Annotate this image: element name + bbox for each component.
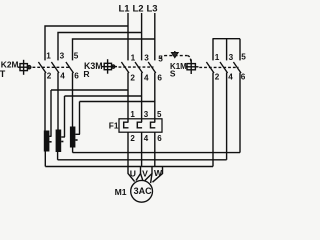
svg-text:R: R [83, 69, 90, 79]
wire loop A hook into bar 1 [49, 135, 51, 137]
wire tap L3 to K2M pole 3 [73, 39, 155, 60]
contactor K1M actuator symbol [171, 53, 178, 58]
wire K3M pole 1 to F1 input [127, 73, 129, 122]
wire K1M pole 1 bottom down [212, 73, 214, 167]
wire delta link 3 (bar3 to K1M pole3) [73, 152, 240, 154]
wire bar 1 down [44, 152, 46, 167]
wire L3 vertical down to K3M pole 3 [154, 13, 156, 60]
svg-text:S: S [170, 69, 176, 79]
svg-text:L1: L1 [119, 4, 131, 15]
junction bar 3 [70, 127, 76, 148]
wire K1M top bus [213, 38, 241, 40]
wire K1M pole 2 bottom down [226, 73, 228, 160]
svg-text:6: 6 [157, 134, 162, 143]
contactor K3M contact pole 3 blade [148, 62, 156, 73]
svg-text:1: 1 [46, 52, 51, 61]
contactor K2M linkage dashes [33, 66, 71, 68]
svg-text:5: 5 [74, 52, 79, 61]
svg-text:T: T [0, 69, 6, 79]
contactor K3M contact pole 2 blade [135, 62, 143, 73]
wire loop A vertical to bar 1 [50, 90, 52, 136]
wire K3M pole 3 to F1 input [154, 73, 156, 122]
wire tap L2 to K2M pole 2 [58, 33, 142, 61]
svg-text:1: 1 [131, 54, 136, 63]
motor terminal W cell [151, 174, 152, 184]
contactor K1M actuator drop [188, 56, 191, 62]
svg-text:L3: L3 [147, 4, 158, 15]
F1 heater element 3 [151, 122, 156, 128]
wire delta link 2 (bar2 to K1M pole2) [58, 159, 227, 161]
contactor K1M contact pole 3 blade [233, 62, 241, 73]
svg-text:4: 4 [60, 72, 65, 81]
contactor K3M linkage dashes [119, 66, 154, 68]
svg-text:3: 3 [144, 110, 149, 119]
svg-text:W: W [154, 168, 163, 178]
junction bar 1 [44, 131, 50, 152]
contactor K1M coil [186, 59, 199, 74]
wire K1M pole 3 top [239, 39, 241, 61]
svg-text:6: 6 [241, 72, 246, 81]
overload relay F1 box [119, 119, 162, 132]
svg-text:V: V [142, 168, 148, 178]
contactor K1M actuator dashed line [161, 56, 188, 59]
svg-text:5: 5 [241, 52, 246, 61]
svg-text:1: 1 [130, 110, 135, 119]
contactor K2M contact pole 3 blade [66, 62, 74, 73]
wire K1M pole 2 top [226, 39, 228, 61]
motor M1 circle [131, 180, 153, 202]
svg-text:5: 5 [157, 110, 162, 119]
wire L2 vertical down to K3M pole 2 [141, 13, 143, 60]
wire loop B hook into bar 2 [61, 136, 65, 138]
svg-text:4: 4 [144, 134, 149, 143]
contactor K1M contact pole 1 blade [206, 62, 214, 73]
contactor K1M contact pole 2 blade [220, 62, 228, 73]
svg-text:6: 6 [157, 74, 162, 83]
svg-text:2: 2 [130, 74, 135, 83]
wire tap L1 to K2M pole 1 [45, 26, 128, 60]
svg-text:2: 2 [215, 72, 220, 81]
F1 heater element 2 [137, 122, 142, 128]
contactor K2M contact pole 1 blade [38, 62, 46, 73]
wire K3M pole 2 to F1 input [141, 73, 143, 122]
motor terminal U cell [128, 167, 135, 182]
wire delta link 1 (bar1 to K1M pole1) [45, 166, 213, 168]
svg-text:M1: M1 [115, 187, 127, 197]
wire K2M pole 3 bottom to junction bar 3 [72, 73, 74, 127]
svg-text:3: 3 [229, 53, 234, 62]
svg-text:4: 4 [144, 74, 149, 83]
wire loop B vertical to bar 2 [64, 96, 66, 137]
motor terminal V cell [141, 174, 143, 181]
svg-text:3: 3 [144, 54, 149, 63]
wire F1 output 2 to motor [141, 132, 143, 166]
svg-text:1: 1 [215, 53, 220, 62]
wire bar 3 down [72, 148, 74, 153]
contactor K2M coil [18, 60, 32, 75]
wire bar 2 down [57, 152, 59, 160]
wire K1M pole 1 top [212, 39, 214, 61]
contactor K3M contact pole 1 blade [121, 62, 129, 73]
wire K2M pole 2 bottom to junction bar 2 [57, 73, 59, 130]
wire L1 vertical down to K3M pole 1 [127, 13, 129, 60]
svg-text:3AC: 3AC [134, 186, 153, 196]
wire K1M pole 3 bottom down [239, 73, 241, 153]
F1 heater element 1 [124, 122, 129, 128]
svg-text:F1: F1 [109, 120, 119, 130]
wire K2M pole 1 bottom to junction bar 1 [44, 73, 46, 131]
svg-text:3: 3 [60, 52, 65, 61]
contactor K3M coil [102, 59, 117, 73]
wire loop C vertical to bar 3 [79, 102, 81, 135]
svg-text:2: 2 [130, 134, 135, 143]
wire loop C hook into bar 3 [75, 133, 80, 135]
svg-text:4: 4 [228, 72, 233, 81]
wire F1 output 3 to motor [154, 132, 156, 166]
svg-text:L2: L2 [133, 4, 144, 15]
wire loop A horizontal to K3M pole 1 [51, 89, 128, 91]
svg-text:6: 6 [74, 72, 79, 81]
svg-text:U: U [130, 168, 136, 178]
wire loop B horizontal to K3M pole 2 [65, 95, 142, 97]
svg-text:2: 2 [47, 72, 52, 81]
wire F1 output 1 to motor [127, 132, 129, 166]
junction bar 2 [56, 130, 62, 153]
wire loop C horizontal to K3M pole 3 [80, 101, 155, 103]
contactor K1M linkage dashes [199, 66, 238, 68]
contactor K2M contact pole 2 blade [51, 62, 59, 73]
